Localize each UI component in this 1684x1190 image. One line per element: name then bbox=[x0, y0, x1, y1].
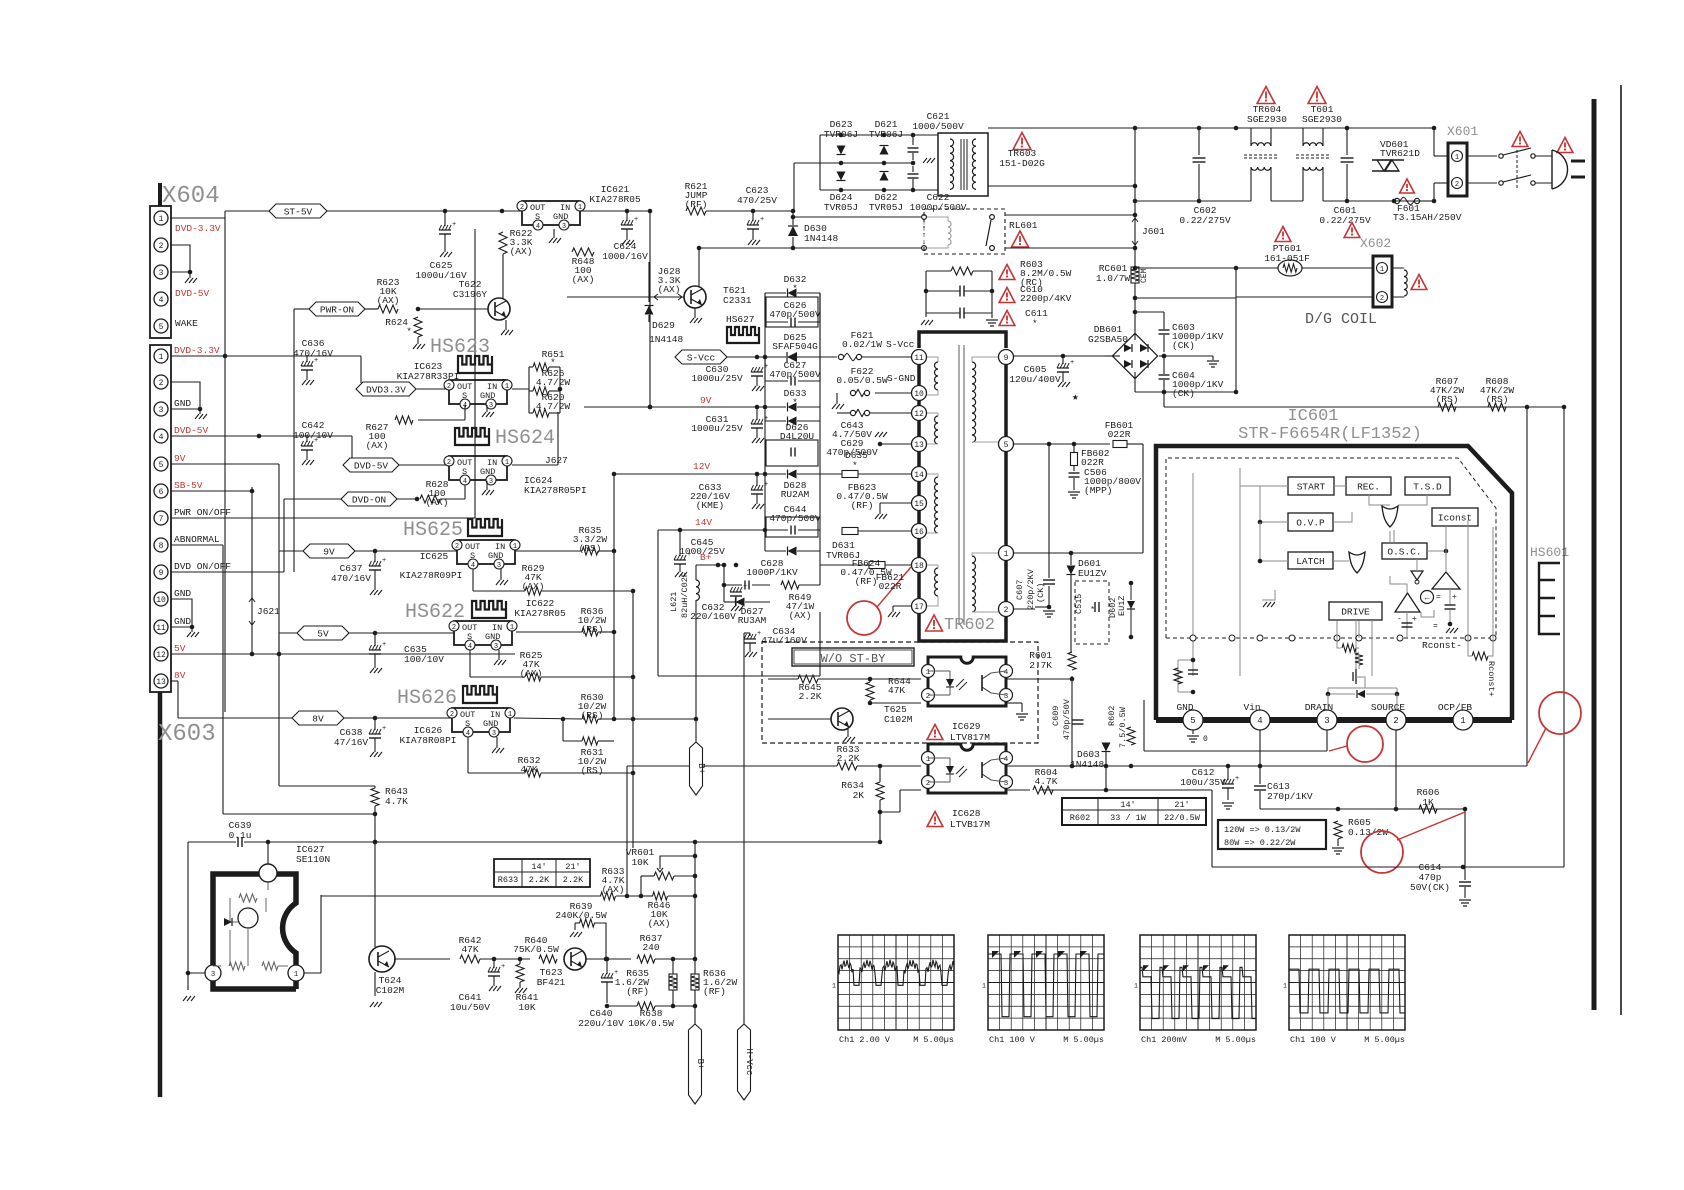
svg-text:RU2AM: RU2AM bbox=[781, 489, 810, 500]
warning triangle RL601 bbox=[1012, 231, 1029, 247]
resistor R638 bbox=[637, 1002, 655, 1010]
svg-text:3: 3 bbox=[492, 730, 496, 738]
svg-text:2: 2 bbox=[1393, 716, 1398, 726]
svg-text:+: + bbox=[764, 481, 768, 489]
ground T621 bbox=[694, 308, 696, 318]
svg-text:16: 16 bbox=[914, 528, 924, 537]
red balloon pin3 bbox=[1347, 726, 1383, 762]
wire T624 vert bbox=[374, 842, 376, 947]
svg-text:4: 4 bbox=[463, 478, 467, 486]
transformer T602 wind L3 bbox=[935, 477, 939, 484]
svg-text:SFAF504G: SFAF504G bbox=[772, 341, 818, 352]
svg-text:220p/2KV: 220p/2KV bbox=[1026, 568, 1036, 610]
transformer T602 pin 1r bbox=[999, 546, 1014, 561]
red balloon pin18 bbox=[847, 601, 881, 635]
wire IC622 in right bbox=[516, 631, 582, 633]
transistor T622 bbox=[488, 298, 510, 320]
wire F601-X601 bbox=[1420, 200, 1434, 202]
resistor R624 bbox=[414, 317, 422, 337]
transformer T602 pin 18 bbox=[912, 558, 927, 573]
svg-text:M 5.00µs: M 5.00µs bbox=[1364, 1035, 1405, 1045]
transformer T602 pin 5r bbox=[999, 437, 1014, 452]
resistor R643 bbox=[371, 788, 379, 806]
svg-text:4: 4 bbox=[1004, 669, 1009, 677]
svg-text:5V: 5V bbox=[317, 629, 329, 640]
connector X603 body bbox=[150, 345, 171, 692]
wire SOURCE down bbox=[1395, 730, 1397, 809]
svg-text:(AX): (AX) bbox=[658, 284, 681, 295]
ground T625 bbox=[847, 729, 849, 737]
capacitor C612 bbox=[1227, 766, 1229, 780]
svg-text:0.05/0.5W: 0.05/0.5W bbox=[836, 375, 888, 386]
W/O ST-BY label bbox=[792, 648, 914, 666]
wire IC622 S bbox=[469, 650, 471, 677]
wire RL601 wires bbox=[170, 217, 172, 219]
svg-text:SGE2930: SGE2930 bbox=[1247, 114, 1287, 125]
wire R637 right bbox=[655, 958, 695, 960]
svg-text:+: + bbox=[314, 437, 318, 445]
wire x1236 down bbox=[1235, 297, 1237, 392]
box C626 bbox=[766, 297, 818, 327]
transformer T602 pin 10 bbox=[912, 386, 927, 401]
wire IC629 p4 bbox=[1006, 678, 1072, 680]
connector X604 pin 4 bbox=[154, 292, 168, 306]
svg-text:1: 1 bbox=[513, 543, 517, 551]
svg-text:3: 3 bbox=[489, 478, 493, 486]
ground IC623 gnd bbox=[486, 405, 488, 412]
X603 pin10-11 gnd wire bbox=[171, 599, 192, 627]
svg-text:9V: 9V bbox=[323, 547, 335, 558]
flag DVD-ON bbox=[341, 492, 397, 506]
svg-text:1: 1 bbox=[294, 971, 299, 979]
block OVP bbox=[1288, 513, 1333, 531]
flag ST-5V bbox=[269, 204, 327, 218]
IC601 pin 1 bbox=[1453, 710, 1473, 730]
resistor R604 bbox=[1033, 786, 1053, 794]
IC601 pin 5 bbox=[1183, 710, 1203, 730]
svg-text:TVR05J: TVR05J bbox=[824, 202, 858, 213]
connector X604 pin 3 bbox=[154, 265, 168, 279]
svg-text:START: START bbox=[1297, 482, 1326, 493]
current source bbox=[1421, 591, 1434, 604]
svg-text:21': 21' bbox=[1174, 800, 1189, 810]
connector X603 pin 8 bbox=[154, 538, 168, 552]
svg-text:161-051F: 161-051F bbox=[1264, 253, 1310, 264]
connector X603 bar bbox=[158, 692, 163, 1097]
svg-text:2: 2 bbox=[520, 204, 524, 212]
svg-text:R624: R624 bbox=[385, 317, 408, 328]
oscillogram 1 bbox=[838, 935, 954, 1030]
wire IC626 net bbox=[514, 718, 582, 719]
svg-text:C3196Y: C3196Y bbox=[453, 289, 488, 300]
wire FB621-pin18 bbox=[885, 564, 911, 566]
resistor R640 bbox=[539, 955, 557, 963]
wire 9V row bbox=[584, 406, 765, 408]
svg-text:+: + bbox=[764, 415, 768, 423]
resistor R646 bbox=[653, 892, 668, 900]
IC627 top pin bbox=[259, 864, 277, 882]
transformer TR603 box bbox=[938, 133, 988, 196]
heatsink HS625 symbol bbox=[468, 519, 502, 536]
svg-text:022R: 022R bbox=[879, 581, 902, 592]
transformer T602 pin 17 bbox=[912, 599, 927, 614]
optocoupler IC629 bbox=[928, 657, 1006, 706]
svg-text:EU1Z: EU1Z bbox=[1117, 596, 1127, 616]
svg-text:HS624: HS624 bbox=[495, 427, 555, 450]
wire pin12 fuse bbox=[850, 410, 855, 415]
ground pin15 bbox=[880, 502, 911, 504]
svg-text:10K/0.5W: 10K/0.5W bbox=[628, 1018, 674, 1029]
connector X603 pin 1 bbox=[154, 349, 168, 363]
svg-text:WAKE: WAKE bbox=[175, 318, 198, 329]
svg-text:12: 12 bbox=[914, 410, 924, 419]
svg-text:12V: 12V bbox=[693, 461, 710, 472]
svg-text:47K: 47K bbox=[461, 944, 478, 955]
svg-text:IC625: IC625 bbox=[420, 551, 449, 562]
wire T624 low bbox=[394, 964, 607, 1006]
svg-text:14': 14' bbox=[531, 862, 546, 872]
svg-text:(CK): (CK) bbox=[1172, 340, 1195, 351]
wire FB601 right bbox=[1127, 443, 1143, 445]
ground C604 mid bbox=[1162, 354, 1167, 359]
svg-text:1: 1 bbox=[982, 982, 986, 989]
wire right v1527 bbox=[1526, 407, 1528, 766]
heatsink HS623 symbol bbox=[458, 356, 492, 373]
svg-text:2: 2 bbox=[1455, 181, 1459, 189]
MOSFET wires bbox=[1327, 694, 1329, 710]
warning triangle TR604 bbox=[1257, 87, 1275, 104]
capacitor C644a bbox=[765, 443, 788, 445]
svg-text:O.V.P: O.V.P bbox=[1296, 518, 1325, 529]
svg-text:★: ★ bbox=[1072, 392, 1079, 404]
IC601 pin 2 bbox=[1386, 710, 1406, 730]
block LATCH bbox=[1288, 552, 1333, 569]
IC601 inner dashed bbox=[1166, 458, 1496, 638]
warning triangle R603 bbox=[999, 265, 1015, 280]
svg-text:DVD3.3V: DVD3.3V bbox=[366, 385, 406, 396]
wire R634 bbox=[879, 766, 881, 782]
wire RC601 bbox=[1134, 266, 1136, 267]
svg-text:10K: 10K bbox=[631, 857, 648, 868]
svg-text:O.S.C.: O.S.C. bbox=[1387, 547, 1421, 558]
svg-text:(AX): (AX) bbox=[602, 884, 625, 895]
capacitor C628 bbox=[744, 581, 746, 590]
connector X604 stub bbox=[158, 183, 162, 206]
svg-text:4: 4 bbox=[468, 643, 472, 651]
svg-text:(MPP): (MPP) bbox=[1084, 485, 1113, 496]
svg-text:DRIVE: DRIVE bbox=[1341, 607, 1370, 618]
svg-text:1K: 1K bbox=[1422, 797, 1434, 808]
diode D621b bbox=[880, 172, 889, 181]
ground IC624 gnd bbox=[486, 481, 488, 490]
wire R621-C623 bbox=[652, 210, 686, 212]
diode D603 bbox=[1105, 752, 1107, 790]
svg-text:6: 6 bbox=[159, 488, 164, 497]
diode D628 bbox=[788, 470, 797, 479]
svg-text:S-Vcc: S-Vcc bbox=[687, 353, 716, 364]
IC601 dashed open pins bbox=[1190, 635, 1196, 641]
resistor R634 bbox=[876, 782, 884, 800]
diode D630 bbox=[792, 211, 794, 225]
svg-text:+: + bbox=[501, 963, 505, 971]
svg-text:470/25V: 470/25V bbox=[737, 195, 777, 206]
capacitor C610 bbox=[959, 286, 961, 297]
flag PWR-ON bbox=[309, 302, 365, 316]
connector X601 pin2 bbox=[1452, 178, 1463, 189]
transformer TR603 windings bbox=[950, 139, 954, 146]
wire T625 base bbox=[768, 718, 831, 720]
svg-text:IC629: IC629 bbox=[952, 721, 981, 732]
wire D-group top bbox=[820, 134, 938, 136]
svg-text:151-D02G: 151-D02G bbox=[999, 158, 1045, 169]
wire R601 bbox=[1071, 676, 1073, 679]
warning triangle X601a bbox=[1512, 132, 1528, 147]
choke T601 bbox=[1302, 128, 1304, 146]
svg-text:(KME): (KME) bbox=[696, 500, 725, 511]
svg-text:47/16V: 47/16V bbox=[334, 737, 369, 748]
potentiometer VR601 bbox=[654, 872, 674, 880]
wire v695 fb bbox=[694, 842, 696, 959]
svg-text:REC.: REC. bbox=[1357, 482, 1380, 493]
warning triangle TR603 bbox=[1013, 133, 1031, 150]
transformer T602 wind L2 bbox=[935, 416, 939, 423]
wire pin16 bbox=[858, 530, 911, 532]
wire PWRON-R623 bbox=[365, 308, 378, 310]
svg-text:3: 3 bbox=[494, 643, 498, 651]
svg-text:0.1u: 0.1u bbox=[229, 830, 252, 841]
svg-text:5V: 5V bbox=[174, 643, 186, 654]
svg-text:2: 2 bbox=[159, 242, 164, 251]
svg-text:B+: B+ bbox=[696, 763, 706, 774]
svg-text:(AX): (AX) bbox=[510, 246, 533, 257]
IC601 osc wires bbox=[1389, 531, 1391, 543]
box C629 bbox=[766, 440, 818, 466]
ground IC621 gnd pin bbox=[553, 229, 555, 238]
capacitor C603 bbox=[1163, 312, 1165, 329]
svg-text:5: 5 bbox=[159, 461, 164, 470]
svg-text:4: 4 bbox=[1257, 716, 1262, 726]
svg-text:5: 5 bbox=[1190, 716, 1195, 726]
capacitor C641 bbox=[493, 959, 495, 968]
svg-text:+: + bbox=[1452, 593, 1457, 602]
wire R646 right bbox=[641, 895, 653, 897]
warning triangle F601 bbox=[1400, 179, 1415, 193]
svg-text:2.2K: 2.2K bbox=[563, 875, 584, 885]
svg-text:D629: D629 bbox=[652, 320, 675, 331]
FB624 bbox=[842, 528, 858, 535]
wire X603 p1 bbox=[171, 355, 361, 357]
oscillogram 4 bbox=[1289, 935, 1405, 1030]
diode D625 bbox=[787, 352, 797, 362]
svg-text:=: = bbox=[1433, 622, 1438, 631]
wire R633 row bbox=[627, 765, 837, 767]
IC601 outline bbox=[1156, 446, 1512, 720]
wire X603 p4 bbox=[171, 435, 352, 437]
connector X603 pin 11 bbox=[154, 620, 168, 634]
svg-text:LATCH: LATCH bbox=[1296, 556, 1325, 567]
wire ST-5V horizontal bbox=[171, 217, 225, 219]
svg-text:(RF): (RF) bbox=[626, 986, 649, 997]
wire left step bbox=[1211, 790, 1213, 867]
svg-text:X601: X601 bbox=[1447, 124, 1478, 139]
table R602 bbox=[1062, 798, 1206, 825]
page border right thick rule bbox=[1592, 99, 1597, 1010]
svg-text:(RS): (RS) bbox=[1436, 394, 1459, 405]
regulator IC626 bbox=[452, 708, 510, 732]
wire 9V row bbox=[355, 550, 457, 552]
capacitor C601 bbox=[1346, 128, 1348, 155]
svg-text:SE110N: SE110N bbox=[296, 854, 330, 865]
choke TR604 bbox=[1250, 128, 1252, 146]
wire IC629 p3 bbox=[1006, 702, 1022, 704]
RC601 fusible bbox=[1131, 267, 1139, 283]
svg-text:(RS): (RS) bbox=[581, 765, 604, 776]
svg-text:2: 2 bbox=[452, 624, 456, 632]
wire T621 collector bbox=[698, 248, 700, 286]
warning triangle TR602 bbox=[926, 615, 943, 631]
wire DVDON bbox=[397, 498, 417, 500]
svg-text:1: 1 bbox=[159, 215, 164, 224]
wire y896 long bbox=[321, 895, 601, 897]
wire C639 left gnd bbox=[187, 842, 189, 990]
svg-text:240: 240 bbox=[642, 942, 659, 953]
flag 5V bbox=[297, 626, 349, 640]
svg-text:C102M: C102M bbox=[376, 985, 405, 996]
svg-text:2.2K: 2.2K bbox=[799, 691, 822, 702]
svg-text:7: 7 bbox=[159, 515, 164, 524]
svg-text:11: 11 bbox=[914, 354, 924, 363]
svg-text:HS627: HS627 bbox=[726, 314, 755, 325]
svg-text:2200p/4KV: 2200p/4KV bbox=[1020, 293, 1072, 304]
heatsink HS627 symbol bbox=[727, 327, 759, 343]
FB621 bbox=[869, 562, 885, 569]
resistor R637 bbox=[637, 955, 655, 963]
posistor PT601 bbox=[1278, 260, 1302, 276]
svg-text:BF421: BF421 bbox=[537, 977, 566, 988]
wire FB602 bbox=[1073, 444, 1075, 452]
wire bus v7 bbox=[293, 309, 295, 572]
wire ladder left rail bbox=[764, 293, 766, 551]
svg-text:M 5.00µs: M 5.00µs bbox=[1215, 1035, 1256, 1045]
capacitor C611 bbox=[959, 308, 961, 319]
wire bus v3 bbox=[251, 625, 253, 654]
wire snub rails bbox=[925, 271, 927, 313]
wire IC626 S bbox=[467, 737, 469, 773]
wire R602 bbox=[1130, 745, 1132, 766]
ground X603 pin3 bbox=[199, 409, 201, 414]
svg-text:C102M: C102M bbox=[884, 714, 913, 725]
svg-text:DVD-5V: DVD-5V bbox=[174, 425, 209, 436]
warning triangle IC628 bbox=[927, 812, 943, 827]
svg-text:X603: X603 bbox=[158, 721, 216, 748]
capacitor C624 bbox=[626, 211, 628, 221]
connector X604 pin 1 bbox=[154, 211, 168, 225]
wire J601 column bbox=[1134, 128, 1136, 266]
svg-text:17: 17 bbox=[914, 603, 924, 612]
resistor R603 bbox=[951, 267, 973, 275]
wire pin10 bbox=[875, 392, 911, 394]
svg-text:←: ← bbox=[1425, 594, 1430, 603]
svg-text:Iconst: Iconst bbox=[1438, 513, 1472, 524]
wire T621 left long bbox=[418, 296, 652, 298]
transformer T602 core bbox=[958, 345, 960, 625]
svg-text:9: 9 bbox=[1004, 354, 1009, 363]
relay RL601 coil bbox=[922, 215, 927, 220]
svg-text:Ch1 100 V: Ch1 100 V bbox=[1290, 1035, 1337, 1045]
wire IC621 right bbox=[585, 210, 652, 212]
wire R642-R640 bbox=[480, 958, 530, 960]
diode D623b bbox=[837, 172, 846, 181]
svg-text:14V: 14V bbox=[695, 517, 712, 528]
svg-text:2.2K: 2.2K bbox=[837, 753, 860, 764]
svg-text:TR602: TR602 bbox=[944, 616, 995, 635]
svg-text:2: 2 bbox=[455, 543, 459, 551]
wire H-Vcc column bbox=[743, 633, 745, 1024]
wire T622 collector bbox=[502, 262, 504, 298]
svg-text:4.7/2W: 4.7/2W bbox=[536, 377, 571, 388]
svg-text:Ch1 2.00 V: Ch1 2.00 V bbox=[839, 1035, 891, 1045]
svg-text:ABNORMAL: ABNORMAL bbox=[174, 534, 220, 545]
svg-text:4: 4 bbox=[466, 730, 470, 738]
red balloon right bbox=[1539, 692, 1581, 734]
wire T623 col bbox=[574, 970, 576, 996]
svg-text:Rconst+: Rconst+ bbox=[1486, 661, 1496, 697]
svg-text:TVR621D: TVR621D bbox=[1380, 148, 1420, 159]
svg-text:270p/1KV: 270p/1KV bbox=[1267, 791, 1313, 802]
wire 5V row bbox=[349, 632, 454, 634]
svg-text:(CK): (CK) bbox=[1172, 388, 1195, 399]
connector X603 pin 7 bbox=[154, 511, 168, 525]
wire TR603 bot right bbox=[988, 185, 1135, 187]
flag 8V bbox=[292, 711, 344, 725]
svg-text:75K/0.5W: 75K/0.5W bbox=[513, 944, 559, 955]
wire 14V loop bbox=[657, 530, 659, 676]
transformer T602 wind L4 bbox=[935, 568, 939, 575]
heatsink HS626 symbol bbox=[463, 686, 497, 703]
ground IC622 gnd bbox=[498, 650, 500, 660]
svg-text:(AX): (AX) bbox=[377, 295, 400, 306]
connector X603 pin 12 bbox=[154, 647, 168, 661]
svg-text:1N4148: 1N4148 bbox=[1070, 759, 1105, 770]
block START bbox=[1288, 477, 1334, 495]
svg-text:DVD-ON: DVD-ON bbox=[352, 495, 386, 506]
svg-text:C607: C607 bbox=[1015, 580, 1025, 600]
transistor T624 bbox=[369, 946, 395, 972]
svg-text:1000P/1KV: 1000P/1KV bbox=[746, 567, 798, 578]
svg-text:1: 1 bbox=[1134, 982, 1138, 989]
svg-text:0.22/275V: 0.22/275V bbox=[1319, 215, 1371, 226]
wire DB601 left bbox=[1105, 355, 1120, 357]
svg-text:10: 10 bbox=[914, 390, 924, 399]
block TSD bbox=[1405, 477, 1450, 495]
warning triangle X602l bbox=[1344, 223, 1360, 238]
svg-text:120W => 0.13/2W: 120W => 0.13/2W bbox=[1224, 825, 1301, 835]
oscillogram 2 bbox=[988, 935, 1104, 1030]
wire ST-5V to IC621 bbox=[327, 210, 522, 212]
svg-text:+: + bbox=[743, 583, 747, 591]
J628 arrows bbox=[652, 296, 684, 298]
svg-text:100u/35V: 100u/35V bbox=[1180, 777, 1226, 788]
svg-text:(RF): (RF) bbox=[703, 986, 726, 997]
svg-text:1N4148: 1N4148 bbox=[804, 233, 839, 244]
svg-text:Ch1 100 V: Ch1 100 V bbox=[989, 1035, 1036, 1045]
svg-text:1: 1 bbox=[505, 459, 509, 467]
resistor Rconst- bbox=[1472, 652, 1488, 660]
svg-text:PWR ON/OFF: PWR ON/OFF bbox=[174, 507, 231, 518]
svg-text:4.7/2W: 4.7/2W bbox=[536, 401, 571, 412]
resistor R605 bbox=[1334, 821, 1342, 839]
svg-text:2.2K: 2.2K bbox=[529, 875, 550, 885]
